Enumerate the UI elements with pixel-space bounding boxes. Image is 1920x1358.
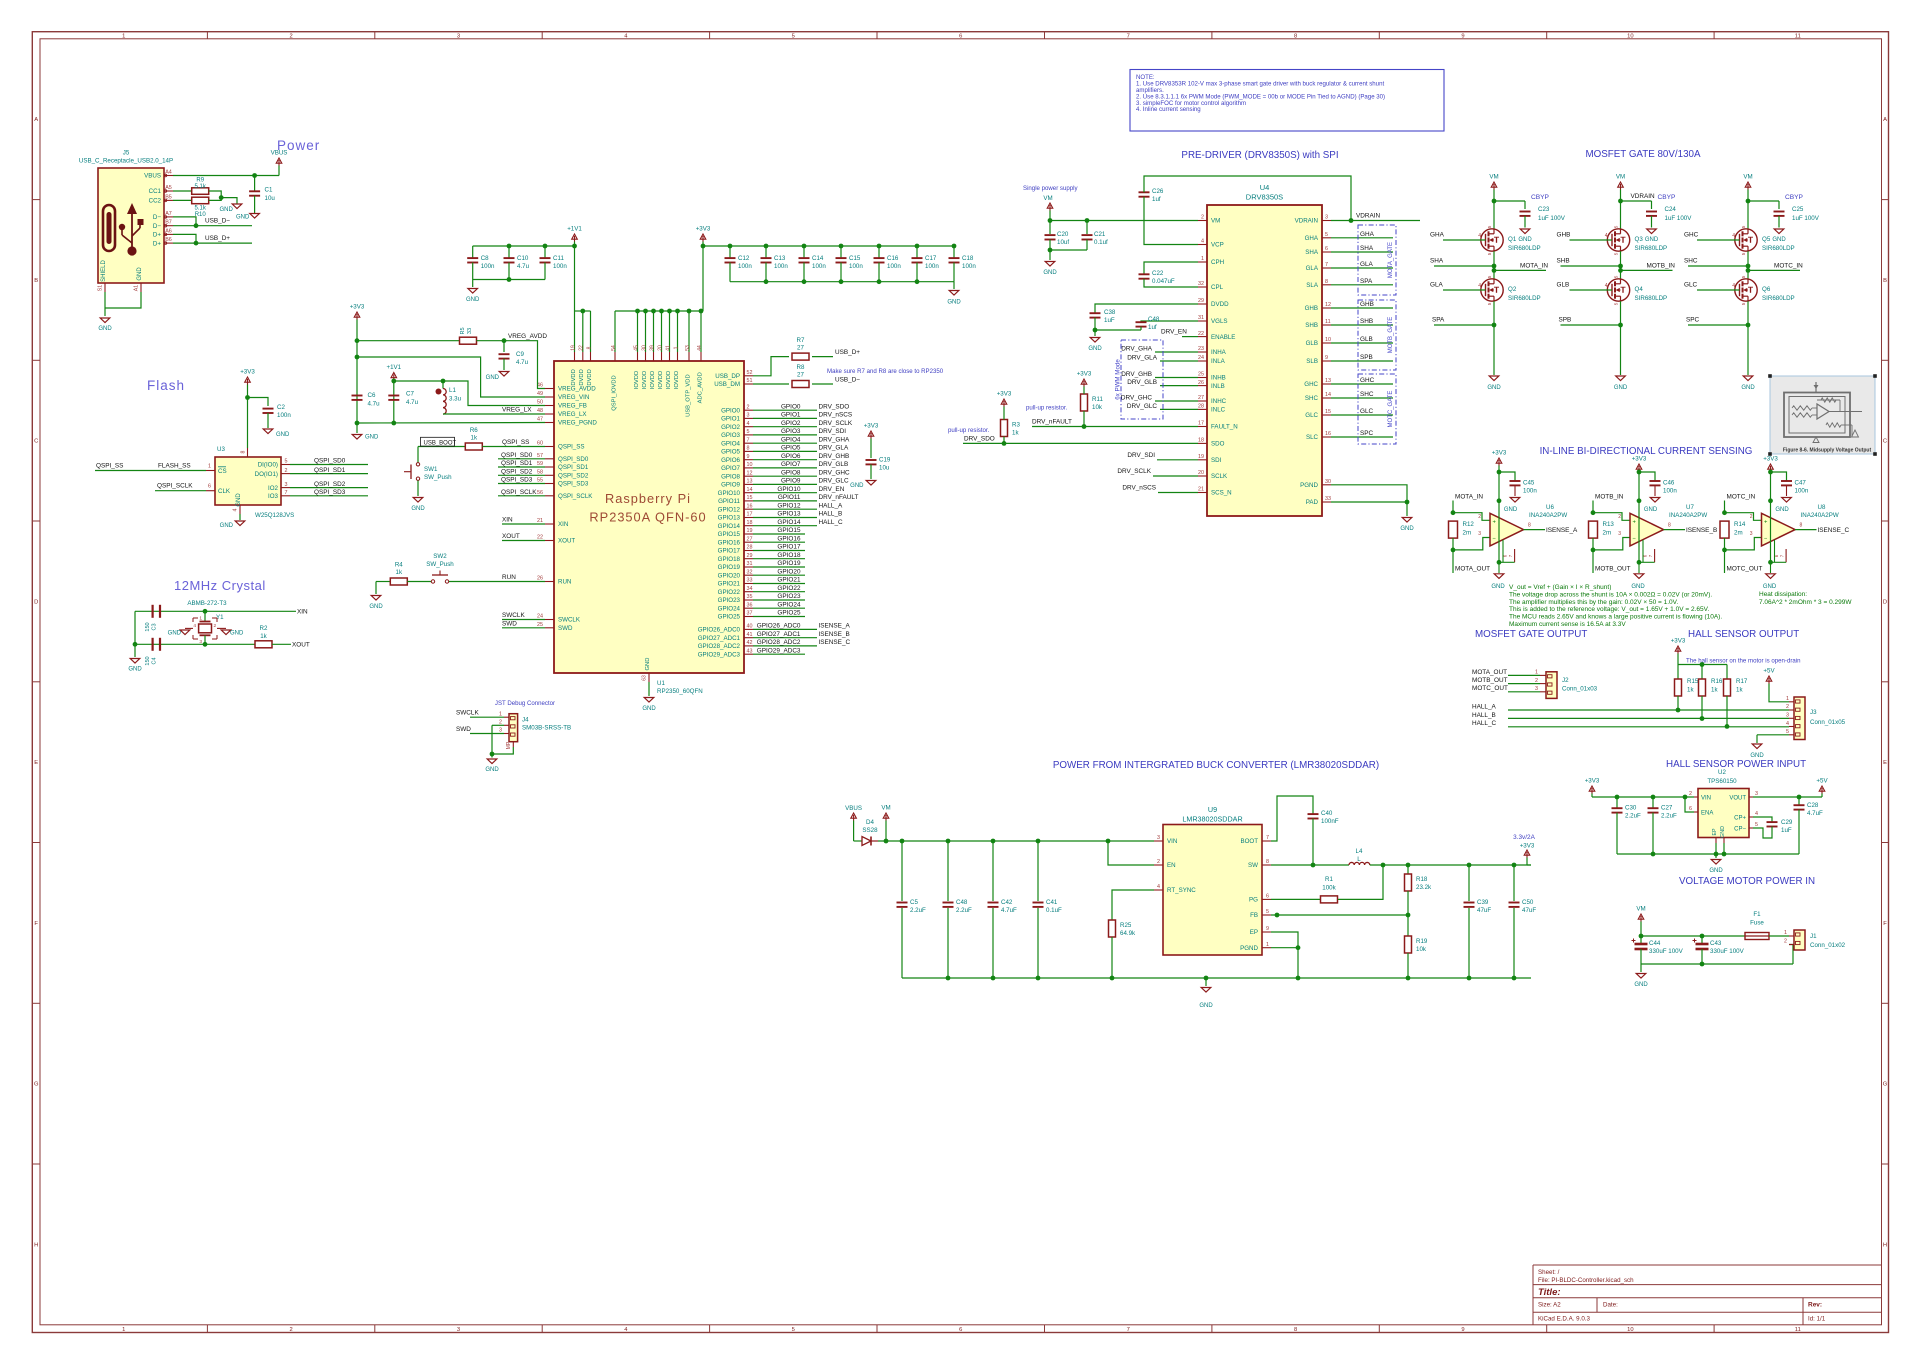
svg-text:23: 23 [1198, 346, 1204, 352]
svg-text:GND: GND [1634, 982, 1648, 988]
svg-text:GHB: GHB [1305, 305, 1318, 312]
svg-text:−: − [1493, 536, 1497, 542]
svg-text:VDRAIN: VDRAIN [1631, 193, 1656, 200]
svg-text:VREG_PGND: VREG_PGND [558, 420, 597, 427]
svg-text:Q1: Q1 [1508, 236, 1517, 243]
svg-text:53: 53 [685, 345, 691, 351]
svg-text:6: 6 [1689, 806, 1692, 812]
svg-text:10: 10 [747, 462, 753, 468]
svg-text:SW: SW [1248, 862, 1258, 869]
svg-text:19: 19 [570, 345, 576, 351]
svg-text:J5: J5 [123, 150, 130, 157]
svg-text:C38: C38 [1104, 309, 1116, 316]
svg-text:24: 24 [537, 614, 543, 620]
svg-text:4: 4 [1157, 884, 1160, 890]
svg-text:QSPI_SD0: QSPI_SD0 [558, 456, 589, 463]
svg-text:13: 13 [747, 479, 753, 485]
svg-text:L: L [1357, 856, 1361, 863]
svg-text:GND: GND [236, 215, 250, 221]
svg-text:R4: R4 [395, 562, 403, 569]
svg-text:C29: C29 [1781, 819, 1793, 826]
svg-text:7: 7 [1127, 1327, 1130, 1333]
svg-text:11: 11 [1325, 319, 1331, 325]
svg-text:64.9k: 64.9k [1120, 930, 1136, 937]
svg-text:GPIO16: GPIO16 [777, 535, 801, 542]
svg-text:GPIO0: GPIO0 [781, 403, 801, 410]
svg-text:C44: C44 [1649, 940, 1661, 947]
svg-text:4.7uF: 4.7uF [1807, 810, 1823, 817]
svg-text:INLA: INLA [1211, 358, 1226, 365]
svg-text:2: 2 [1784, 939, 1787, 945]
svg-text:59: 59 [537, 461, 543, 467]
svg-text:100n: 100n [481, 263, 495, 270]
svg-text:2.2uF: 2.2uF [956, 907, 972, 914]
svg-text:100n: 100n [277, 412, 291, 419]
svg-text:L1: L1 [449, 387, 456, 394]
svg-text:GHA: GHA [1305, 235, 1319, 242]
svg-text:Y1: Y1 [216, 614, 224, 621]
svg-text:5: 5 [1741, 252, 1746, 255]
svg-text:QSPI_SCLK: QSPI_SCLK [501, 489, 537, 496]
svg-text:USB_D+: USB_D+ [835, 349, 860, 356]
svg-text:9: 9 [1325, 355, 1328, 361]
svg-text:ISENSE_A: ISENSE_A [819, 623, 851, 630]
svg-text:VOUT: VOUT [1729, 796, 1746, 802]
svg-text:3.3u: 3.3u [449, 396, 462, 403]
svg-text:1k: 1k [396, 569, 403, 576]
svg-text:R19: R19 [1416, 938, 1428, 945]
svg-text:DO(IO1): DO(IO1) [255, 471, 278, 478]
svg-text:37: 37 [747, 611, 753, 617]
svg-text:47uF: 47uF [1522, 907, 1536, 914]
svg-text:MP: MP [506, 741, 512, 749]
svg-text:DRV_GLA: DRV_GLA [819, 445, 849, 452]
svg-text:DRV_GHA: DRV_GHA [1121, 345, 1153, 352]
svg-text:INHA: INHA [1211, 349, 1227, 356]
svg-text:GPIO20: GPIO20 [777, 568, 801, 575]
svg-text:2: 2 [1750, 514, 1753, 520]
svg-text:The amplifier multiplies this: The amplifier multiplies this by the gai… [1509, 599, 1678, 606]
svg-text:SIR680LDP: SIR680LDP [1508, 295, 1541, 302]
svg-text:GND: GND [1631, 584, 1645, 590]
svg-text:GPIO0: GPIO0 [721, 407, 740, 414]
svg-text:GND: GND [1709, 868, 1723, 874]
svg-text:+5V: +5V [1816, 778, 1828, 785]
svg-text:QSPI_SD1: QSPI_SD1 [314, 467, 346, 474]
svg-text:GPIO27_ADC1: GPIO27_ADC1 [757, 631, 801, 638]
svg-text:GND: GND [1491, 584, 1505, 590]
svg-text:GND: GND [1518, 237, 1532, 243]
svg-text:Conn_01x02: Conn_01x02 [1810, 942, 1846, 949]
svg-text:2: 2 [499, 720, 502, 726]
svg-text:4: 4 [233, 508, 239, 511]
svg-text:DRV_SDI: DRV_SDI [1127, 452, 1155, 459]
svg-text:+3V3: +3V3 [1763, 456, 1778, 463]
svg-text:SPA: SPA [1360, 278, 1373, 285]
svg-text:1uF: 1uF [1781, 827, 1792, 834]
svg-text:USB_DM: USB_DM [714, 381, 740, 388]
svg-text:HALL_B: HALL_B [1472, 712, 1496, 719]
svg-text:5: 5 [1487, 252, 1492, 255]
svg-text:1: 1 [1784, 930, 1787, 936]
svg-text:R1: R1 [1325, 876, 1333, 883]
svg-text:30: 30 [1325, 479, 1331, 485]
svg-text:5.1k: 5.1k [195, 184, 207, 190]
svg-text:17: 17 [747, 512, 753, 518]
svg-text:5: 5 [1614, 302, 1619, 305]
svg-text:GLB: GLB [1360, 336, 1373, 343]
svg-text:SHB: SHB [1557, 258, 1570, 265]
svg-text:27: 27 [1198, 395, 1204, 401]
svg-text:R16: R16 [1711, 678, 1723, 685]
svg-text:VGLS: VGLS [1211, 318, 1228, 325]
svg-text:Flash: Flash [147, 378, 185, 393]
svg-text:KiCad E.D.A. 9.0.3: KiCad E.D.A. 9.0.3 [1538, 1316, 1590, 1323]
svg-text:C6: C6 [368, 392, 376, 399]
svg-text:File: PI-BLDC-Controller.kicad: File: PI-BLDC-Controller.kicad_sch [1538, 1277, 1634, 1284]
svg-text:100n: 100n [962, 263, 976, 270]
svg-text:U3: U3 [217, 446, 225, 453]
svg-text:6: 6 [959, 1327, 962, 1333]
svg-text:C45: C45 [1523, 480, 1535, 487]
svg-text:1uf: 1uf [1148, 324, 1157, 331]
svg-text:4: 4 [1478, 283, 1481, 289]
svg-text:SW2: SW2 [433, 553, 447, 560]
svg-text:SIR680LDP: SIR680LDP [1762, 245, 1795, 252]
svg-text:3: 3 [1478, 531, 1481, 537]
svg-text:GPIO2: GPIO2 [721, 424, 740, 431]
svg-text:PGND: PGND [1240, 945, 1258, 952]
svg-text:Single power supply: Single power supply [1023, 185, 1078, 192]
svg-text:16: 16 [1325, 431, 1331, 437]
svg-text:FAULT_N: FAULT_N [1211, 424, 1238, 431]
svg-text:IOVDD: IOVDD [666, 371, 672, 389]
svg-text:1: 1 [1266, 942, 1269, 948]
svg-text:2m: 2m [1734, 530, 1743, 537]
svg-text:C19: C19 [879, 457, 891, 464]
svg-text:C43: C43 [1710, 940, 1722, 947]
svg-text:100n: 100n [1523, 488, 1537, 495]
svg-text:C9: C9 [516, 351, 524, 358]
svg-text:2: 2 [1201, 215, 1204, 221]
svg-text:MOSFET GATE 80V/130A: MOSFET GATE 80V/130A [1585, 149, 1701, 160]
svg-text:W25Q128JVS: W25Q128JVS [255, 512, 294, 519]
svg-text:DRV_GHB: DRV_GHB [1121, 371, 1152, 378]
svg-text:QSPI_SD1: QSPI_SD1 [501, 460, 533, 467]
svg-text:GPIO14: GPIO14 [718, 523, 741, 530]
svg-text:Figure 8-6. Midsupply Voltage: Figure 8-6. Midsupply Voltage Output [1783, 448, 1872, 454]
svg-text:SPC: SPC [1686, 317, 1700, 324]
svg-text:4: 4 [193, 623, 196, 629]
svg-text:5: 5 [747, 429, 750, 435]
svg-text:2: 2 [214, 623, 217, 629]
svg-text:100n: 100n [1663, 488, 1677, 495]
svg-text:GND: GND [850, 483, 864, 489]
svg-text:HALL SENSOR OUTPUT: HALL SENSOR OUTPUT [1688, 629, 1799, 640]
svg-text:MOTA_IN: MOTA_IN [1520, 262, 1548, 269]
svg-text:GPIO15: GPIO15 [718, 531, 741, 538]
svg-text:15: 15 [1325, 409, 1331, 415]
svg-text:G: G [34, 1082, 39, 1088]
svg-text:INHC: INHC [1211, 398, 1227, 405]
svg-text:GND: GND [276, 432, 290, 438]
svg-text:GPIO18: GPIO18 [777, 552, 801, 559]
svg-text:19: 19 [747, 528, 753, 534]
svg-text:1: 1 [673, 346, 679, 349]
svg-text:1uF 100V: 1uF 100V [1665, 215, 1693, 222]
svg-text:A7: A7 [165, 211, 172, 217]
svg-text:3: 3 [1786, 713, 1789, 719]
svg-text:5: 5 [1325, 232, 1328, 238]
svg-text:SHA: SHA [1360, 245, 1374, 252]
svg-text:GLA: GLA [1430, 282, 1444, 289]
svg-text:35: 35 [747, 594, 753, 600]
svg-text:GPIO28_ADC2: GPIO28_ADC2 [757, 639, 801, 646]
svg-text:Q5: Q5 [1762, 236, 1771, 243]
svg-text:GLC: GLC [1305, 412, 1318, 419]
svg-text:GPIO24: GPIO24 [718, 605, 741, 612]
svg-text:B: B [1883, 278, 1887, 284]
svg-text:34: 34 [747, 586, 753, 592]
svg-text:DVDD: DVDD [1211, 301, 1229, 308]
svg-text:RUN: RUN [558, 579, 571, 586]
svg-text:30: 30 [641, 345, 647, 351]
svg-text:GPIO21: GPIO21 [718, 581, 741, 588]
svg-text:DRV_nFAULT: DRV_nFAULT [1032, 419, 1072, 426]
svg-text:9: 9 [1461, 34, 1464, 40]
svg-text:C27: C27 [1661, 805, 1673, 812]
svg-text:LMR38020SDDAR: LMR38020SDDAR [1182, 815, 1242, 824]
svg-text:GPIO5: GPIO5 [781, 445, 801, 452]
svg-text:2.2uF: 2.2uF [1661, 813, 1677, 820]
svg-text:E: E [1883, 760, 1887, 766]
svg-text:R6: R6 [470, 427, 478, 434]
svg-text:GND: GND [642, 706, 656, 712]
svg-text:27: 27 [797, 344, 804, 351]
svg-text:C22: C22 [1152, 270, 1164, 277]
svg-text:DRV_GLC: DRV_GLC [1127, 403, 1157, 410]
svg-text:IOVDD: IOVDD [650, 371, 656, 389]
svg-text:C: C [1883, 439, 1887, 445]
svg-text:21: 21 [1198, 487, 1204, 493]
svg-text:DRV_nFAULT: DRV_nFAULT [819, 494, 859, 501]
svg-text:1k: 1k [1687, 687, 1694, 694]
svg-text:2: 2 [1618, 514, 1621, 520]
svg-text:GND: GND [947, 300, 961, 306]
svg-text:GPIO10: GPIO10 [777, 486, 801, 493]
svg-text:55: 55 [537, 478, 543, 484]
svg-text:7: 7 [1127, 34, 1130, 40]
svg-text:QSPI_SS: QSPI_SS [96, 463, 123, 470]
svg-text:R25: R25 [1120, 922, 1132, 929]
svg-text:4: 4 [1201, 239, 1204, 245]
svg-text:F1: F1 [1753, 911, 1761, 918]
svg-text:ABMB-272-T3: ABMB-272-T3 [187, 600, 227, 607]
svg-text:SLA: SLA [1306, 282, 1319, 289]
svg-text:DRV_SCLK: DRV_SCLK [819, 420, 853, 427]
svg-text:GND: GND [369, 604, 383, 610]
svg-text:C47: C47 [1795, 480, 1807, 487]
svg-text:PAD: PAD [1306, 499, 1319, 506]
svg-text:ISENSE_A: ISENSE_A [1546, 527, 1578, 534]
svg-text:GND: GND [1504, 507, 1518, 513]
svg-text:VM: VM [1636, 906, 1645, 913]
svg-text:5: 5 [1266, 909, 1269, 915]
svg-text:8: 8 [1294, 1327, 1297, 1333]
svg-text:SDO: SDO [1211, 441, 1225, 448]
svg-text:C41: C41 [1046, 899, 1058, 906]
svg-text:3.3v/2A: 3.3v/2A [1513, 834, 1535, 841]
svg-text:8: 8 [1325, 279, 1328, 285]
svg-text:G: G [1883, 1082, 1888, 1088]
svg-text:C4: C4 [152, 657, 158, 664]
svg-text:GPIO28_ADC2: GPIO28_ADC2 [698, 643, 741, 650]
svg-text:5: 5 [1741, 275, 1746, 278]
svg-text:+3V3: +3V3 [240, 369, 255, 376]
svg-text:GPIO11: GPIO11 [778, 494, 801, 501]
svg-text:DVDD: DVDD [579, 369, 585, 385]
svg-text:C3: C3 [152, 623, 158, 630]
svg-text:Q6: Q6 [1762, 286, 1771, 293]
svg-text:+3V3: +3V3 [1671, 638, 1686, 645]
svg-text:MOTB_OUT: MOTB_OUT [1595, 566, 1631, 573]
svg-text:2: 2 [289, 1327, 292, 1333]
svg-text:15: 15 [747, 495, 753, 501]
svg-text:DRV_GHA: DRV_GHA [819, 436, 851, 443]
svg-text:2: 2 [747, 404, 750, 410]
svg-text:SPB: SPB [1559, 317, 1572, 324]
svg-text:INLC: INLC [1211, 407, 1226, 414]
svg-text:FLASH_SS: FLASH_SS [158, 463, 191, 470]
svg-text:C28: C28 [1807, 802, 1819, 809]
svg-text:C2: C2 [277, 404, 285, 411]
svg-text:Conn_01x03: Conn_01x03 [1562, 686, 1598, 693]
svg-text:SS28: SS28 [862, 827, 878, 834]
svg-text:MOTA_IN: MOTA_IN [1455, 494, 1483, 501]
svg-text:USB_C_Receptacle_USB2.0_14P: USB_C_Receptacle_USB2.0_14P [79, 158, 173, 165]
svg-text:10u: 10u [265, 195, 276, 202]
svg-text:C10: C10 [517, 255, 529, 262]
svg-text:+3V3: +3V3 [1492, 450, 1507, 457]
svg-text:VREG_VIN: VREG_VIN [558, 394, 589, 401]
svg-text:VM: VM [1489, 174, 1498, 181]
svg-text:GPIO22: GPIO22 [777, 585, 801, 592]
svg-text:1: 1 [199, 616, 202, 622]
svg-text:28: 28 [1198, 404, 1204, 410]
svg-text:100n: 100n [812, 263, 826, 270]
svg-text:MOTC_GATE: MOTC_GATE [1388, 391, 1394, 428]
svg-text:GPIO13: GPIO13 [777, 511, 801, 518]
svg-text:HALL_B: HALL_B [819, 511, 843, 518]
svg-text:C26: C26 [1152, 188, 1164, 195]
svg-text:GND: GND [98, 326, 112, 332]
svg-text:GLC: GLC [1684, 282, 1698, 289]
svg-text:C25: C25 [1792, 206, 1804, 213]
svg-text:DRV_GHC: DRV_GHC [1121, 394, 1153, 401]
svg-text:1: 1 [1535, 670, 1538, 676]
svg-text:100nF: 100nF [1321, 818, 1339, 825]
svg-text:RUN: RUN [502, 574, 516, 581]
svg-text:GPIO12: GPIO12 [718, 506, 741, 513]
svg-text:GPIO12: GPIO12 [777, 502, 801, 509]
svg-text:JST Debug Connector: JST Debug Connector [495, 700, 555, 707]
svg-text:IO2: IO2 [268, 485, 279, 492]
svg-text:R14: R14 [1734, 521, 1746, 528]
svg-text:Id: 1/1: Id: 1/1 [1808, 1316, 1826, 1323]
svg-text:GND: GND [220, 523, 234, 529]
svg-text:1k: 1k [1711, 687, 1718, 694]
svg-text:SHIELD: SHIELD [101, 260, 107, 282]
svg-text:1uF 100V: 1uF 100V [1792, 215, 1820, 222]
svg-text:14: 14 [1325, 392, 1331, 398]
svg-text:C48: C48 [956, 899, 968, 906]
svg-text:60: 60 [537, 441, 543, 447]
svg-text:5: 5 [1614, 275, 1619, 278]
svg-text:3: 3 [747, 413, 750, 419]
svg-text:XOUT: XOUT [292, 642, 310, 649]
svg-text:IOVDD: IOVDD [674, 371, 680, 389]
svg-text:SHC: SHC [1360, 391, 1374, 398]
svg-text:J4: J4 [522, 717, 529, 724]
svg-text:GLB: GLB [1306, 340, 1318, 347]
svg-text:MOTB_IN: MOTB_IN [1595, 494, 1624, 501]
svg-text:27: 27 [747, 536, 753, 542]
svg-text:5: 5 [285, 459, 288, 465]
svg-text:SLB: SLB [1306, 358, 1318, 365]
svg-text:CBYP: CBYP [1658, 194, 1677, 201]
svg-text:1: 1 [122, 1327, 125, 1333]
svg-text:+3V3: +3V3 [997, 391, 1012, 398]
svg-text:31: 31 [1198, 315, 1204, 321]
svg-text:8: 8 [1800, 523, 1803, 529]
svg-text:U1: U1 [657, 680, 665, 687]
svg-text:USB_OTP_VDD: USB_OTP_VDD [685, 374, 691, 417]
svg-text:VREG_LX: VREG_LX [558, 411, 587, 418]
svg-text:CC1: CC1 [149, 188, 162, 195]
svg-text:5: 5 [1487, 225, 1492, 228]
svg-text:10k: 10k [1416, 946, 1427, 953]
svg-text:QSPI_SS: QSPI_SS [558, 444, 584, 451]
svg-text:330uF 100V: 330uF 100V [1710, 948, 1745, 955]
svg-text:Maximum current sense is 16.5A: Maximum current sense is 16.5A at 3.3V [1509, 621, 1626, 628]
svg-text:MOTB_IN: MOTB_IN [1647, 262, 1676, 269]
svg-text:GPIO9: GPIO9 [721, 482, 740, 489]
svg-text:VREG_LX: VREG_LX [502, 407, 532, 414]
svg-text:CP−: CP− [1734, 827, 1746, 833]
svg-text:GND: GND [220, 207, 234, 213]
svg-text:HALL SENSOR POWER INPUT: HALL SENSOR POWER INPUT [1666, 759, 1806, 770]
svg-text:VIN: VIN [1167, 838, 1177, 845]
svg-text:GPIO25: GPIO25 [718, 614, 741, 621]
svg-text:U7: U7 [1686, 504, 1694, 511]
svg-text:SCS_N: SCS_N [1211, 490, 1232, 497]
svg-text:18: 18 [1198, 438, 1204, 444]
svg-text:SIR680LDP: SIR680LDP [1762, 295, 1795, 302]
svg-text:R17: R17 [1736, 678, 1748, 685]
svg-text:PGND: PGND [1300, 482, 1318, 489]
svg-text:17: 17 [1198, 421, 1204, 427]
svg-text:29: 29 [747, 553, 753, 559]
svg-text:INHB: INHB [1211, 375, 1226, 382]
svg-text:−: − [1764, 536, 1768, 542]
svg-text:GND: GND [365, 435, 379, 441]
svg-text:DRV_nSCS: DRV_nSCS [1122, 485, 1156, 492]
svg-text:3: 3 [1535, 686, 1538, 692]
svg-text:The MCU reads 2.65V and knows: The MCU reads 2.65V and knows a large po… [1509, 614, 1722, 621]
svg-text:3: 3 [1755, 791, 1758, 797]
svg-text:SCLK: SCLK [1211, 473, 1228, 480]
svg-text:QSPI_SD3: QSPI_SD3 [314, 489, 346, 496]
